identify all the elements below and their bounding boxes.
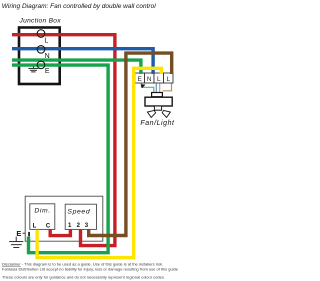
wire red mains L: junction box to speed 2 [12, 35, 115, 246]
svg-text:Fan/Light: Fan/Light [140, 120, 175, 127]
fan connector block [152, 93, 163, 97]
terminal E [37, 61, 45, 69]
link line E to box [23, 232, 26, 234]
svg-text:E: E [138, 76, 142, 83]
junction box [19, 28, 60, 85]
thin wire red below L1 to fan connector [159, 84, 161, 93]
wire yellow: dim L to fan light L [37, 68, 161, 257]
svg-text:N: N [147, 76, 152, 83]
svg-text:Junction Box: Junction Box [19, 17, 62, 24]
fan body [145, 97, 172, 106]
fan neck [154, 106, 161, 110]
ENLL terminal block cells [135, 73, 173, 83]
svg-text:Speed: Speed [67, 208, 90, 215]
thin wire green below E to fan connector [142, 84, 154, 93]
svg-text:Dim.: Dim. [34, 207, 50, 214]
left lamp [147, 110, 155, 117]
speed box [65, 204, 96, 229]
wire green earth lower: junction box to wall control E [12, 65, 108, 253]
terminal rings redrawn over wires [37, 30, 45, 69]
svg-text:These colours are only for gui: These colours are only for guidance and … [2, 275, 165, 280]
wire red jumper C to 1 [50, 230, 70, 236]
wall control outer box [25, 196, 103, 241]
svg-text:E: E [45, 68, 50, 75]
ground symbol in junction box [28, 66, 38, 72]
terminal L [37, 30, 45, 38]
earth arrow below E cell [141, 84, 146, 88]
svg-text:L: L [157, 76, 161, 83]
svg-text:L: L [33, 224, 37, 230]
wire green earth upper: junction box to fan E [12, 60, 141, 74]
wire blue N: junction box to fan N [12, 49, 153, 74]
terminal N [37, 46, 45, 54]
svg-text:Wiring Diagram: Fan controlled: Wiring Diagram: Fan controlled by double… [2, 3, 156, 10]
svg-text:L: L [167, 76, 171, 83]
wire brown: speed 3 to fan L [89, 53, 172, 235]
svg-text:C: C [46, 223, 51, 229]
thin wire brown below L2 to fan connector [163, 84, 172, 91]
svg-text:E: E [16, 229, 21, 238]
right lamp [162, 110, 170, 117]
dimmer box [30, 204, 55, 230]
thin wire blue below N to fan connector [155, 84, 157, 93]
black terminal tick for earth inside box [28, 232, 30, 236]
svg-text:Fantasia Distribution Ltd acce: Fantasia Distribution Ltd accept no liab… [2, 267, 179, 272]
ground symbol at wall control [9, 237, 23, 248]
cell letters E N L L [138, 76, 171, 83]
svg-text:L: L [44, 37, 48, 44]
